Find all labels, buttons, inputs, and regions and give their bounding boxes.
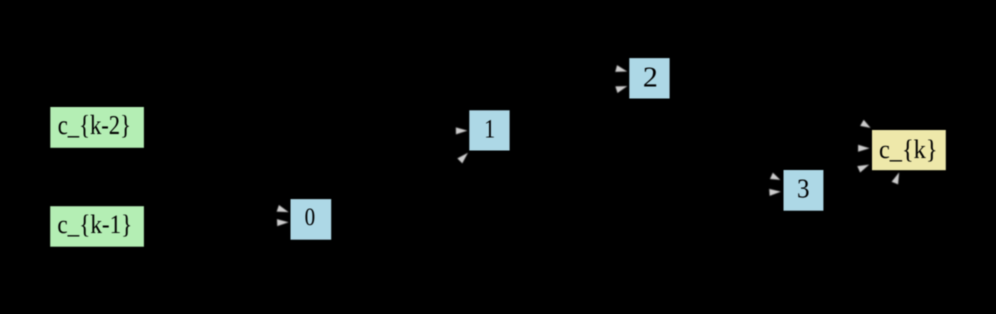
svg-text:3: 3 <box>797 172 810 204</box>
svg-text:2: 2 <box>643 62 658 93</box>
svg-text:1: 1 <box>484 116 495 144</box>
svg-text:c_{k-1}: c_{k-1} <box>57 211 132 240</box>
svg-text:0: 0 <box>305 203 316 231</box>
svg-text:c_{k}: c_{k} <box>879 134 938 164</box>
svg-text:c_{k-2}: c_{k-2} <box>58 111 131 141</box>
